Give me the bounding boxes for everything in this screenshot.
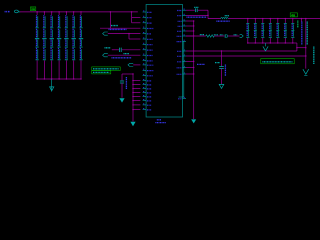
capacitor C11 label2 xyxy=(215,62,220,64)
pin 9 left xyxy=(143,54,147,56)
ic U2 body xyxy=(146,5,182,118)
wire cap to gnd 2 xyxy=(221,69,223,85)
pin 31 right xyxy=(183,67,187,69)
junction SCK cap xyxy=(221,50,222,51)
wire GND pin stub 8 xyxy=(133,109,140,111)
pin 25 right xyxy=(183,30,187,32)
wire cap row left xyxy=(112,49,119,51)
wire EN tie vertical xyxy=(128,34,130,39)
resistor R1 / LED D1 column xyxy=(35,11,39,80)
connector J1 label 0 xyxy=(297,21,299,29)
capacitor C12 xyxy=(118,48,120,52)
capacitor C11 label xyxy=(224,65,226,77)
net flag OUT xyxy=(240,34,244,37)
capacitor C11 xyxy=(219,66,224,68)
pin 22 right xyxy=(183,14,187,16)
pin 5 left xyxy=(143,33,147,35)
pin 19 left GND xyxy=(143,104,147,106)
connector J1 label c xyxy=(313,47,315,65)
ground GND5 xyxy=(219,84,224,88)
pin 10 left xyxy=(143,60,147,62)
pin 21 right xyxy=(183,9,187,11)
capacitor C10 xyxy=(224,34,226,38)
pin 29 right xyxy=(183,55,187,57)
capacitor C9 label xyxy=(194,6,198,8)
ferrite bead FB1 xyxy=(221,17,229,18)
resistor R7 / LED D7 column xyxy=(79,11,83,80)
pin 7 left xyxy=(143,43,147,45)
net flag RXD xyxy=(128,63,133,66)
ground GND3 xyxy=(130,122,135,126)
wire VDD to bead xyxy=(208,18,221,20)
pin 2 left xyxy=(143,16,147,18)
net class label 3A xyxy=(30,7,35,11)
wire GND pin stub 7 xyxy=(133,104,140,106)
pin 18 left GND xyxy=(143,100,147,102)
wire cap to gnd xyxy=(121,83,123,98)
wire GND pin stub 1 xyxy=(133,80,140,82)
wire EN row xyxy=(108,33,141,35)
wire R8 to C10 xyxy=(214,35,224,37)
capacitor C12 value xyxy=(105,47,111,49)
pin 16 left GND xyxy=(143,92,147,94)
wire EN tie row xyxy=(129,38,140,40)
resistor R2 / LED D2 column xyxy=(42,11,46,80)
pin 27 right xyxy=(183,40,187,42)
net label +3.3V xyxy=(5,11,8,13)
label ADC net xyxy=(109,28,127,30)
note box GPIO xyxy=(92,67,120,71)
wire J1 drop xyxy=(305,19,307,69)
wire GND pin stub 2 xyxy=(133,84,140,86)
net class label 4A xyxy=(290,13,297,17)
connector J1 label b xyxy=(306,22,308,46)
pin 28 right xyxy=(183,50,187,52)
wire rail to SCK row xyxy=(293,42,297,44)
wire RXD row xyxy=(133,64,140,66)
net flag EN xyxy=(103,32,108,35)
ferrite bead FB1 label xyxy=(225,15,229,17)
pin 6 left xyxy=(143,38,147,40)
pin 13 left xyxy=(143,75,147,77)
wire IO9 to R8 xyxy=(186,35,206,37)
label IO9 net xyxy=(197,63,205,65)
wire NC tie rail xyxy=(193,21,195,119)
resistor R13 pulldown xyxy=(269,18,272,44)
wire pulldown rail xyxy=(248,42,293,44)
wire pin VDA row xyxy=(186,14,208,16)
label ADC class xyxy=(111,25,118,27)
net flag IO0 xyxy=(103,54,108,57)
wire GND pin stub 6 xyxy=(133,100,140,102)
wire SCK long row xyxy=(186,50,297,52)
pin 1 left xyxy=(143,11,147,13)
pin 4 left xyxy=(143,27,147,29)
pin 8 left xyxy=(143,49,147,51)
wire SDO long row xyxy=(186,55,306,57)
wire VDD cap link xyxy=(122,73,133,75)
resistor R8 value xyxy=(214,34,218,36)
wire pin EXT row xyxy=(186,9,195,11)
wire VDD comb vertical xyxy=(131,12,133,23)
resistor R15 pulldown xyxy=(284,18,287,44)
pin 15 left GND xyxy=(143,88,147,90)
wire far right stub a xyxy=(301,19,303,22)
pin 33 right xyxy=(183,98,187,100)
wire cap row right xyxy=(122,49,141,51)
pin 23 right xyxy=(183,20,187,22)
pin 3 left xyxy=(143,22,147,24)
wire GND rail left xyxy=(132,74,134,121)
pin 20 left GND xyxy=(143,109,147,111)
note box right xyxy=(261,59,294,64)
resistor R8 xyxy=(206,35,214,38)
wire VDD pin2 stub xyxy=(132,16,141,18)
resistor R5 / LED D5 column xyxy=(64,11,68,80)
wire NC stub y61.5 xyxy=(186,61,194,63)
resistor R12 pulldown xyxy=(261,18,264,44)
resistor R8 label xyxy=(200,34,204,36)
pin 11 left xyxy=(143,64,147,66)
label IO0 net xyxy=(112,57,132,59)
wire NC stub y74.0 xyxy=(186,73,194,75)
wire NC stub y67.5 xyxy=(186,67,194,69)
resistor R3 / LED D3 column xyxy=(50,11,54,80)
pin 30 right xyxy=(183,61,187,63)
pin 26 right xyxy=(183,35,187,37)
label IO0 class xyxy=(124,53,130,55)
wire GND pin stub 5 xyxy=(133,96,140,98)
ic U2 refdes xyxy=(157,119,161,121)
pin 32 right xyxy=(183,73,187,75)
ground GND7 xyxy=(303,69,309,74)
pin 14 left GND xyxy=(143,84,147,86)
junction EN tie xyxy=(128,33,129,34)
ic section divider xyxy=(179,96,184,98)
wire 4A bus xyxy=(228,18,320,20)
label VDA net xyxy=(187,16,207,18)
wire VDD pin3 stub xyxy=(132,22,141,24)
resistor R6 / LED D6 column xyxy=(72,11,76,80)
wire stub 47 xyxy=(297,47,306,49)
wire cap to corner xyxy=(198,9,208,11)
power symbol P1 supply circle xyxy=(15,10,19,13)
wire cap drop xyxy=(221,51,223,66)
resistor R4 / LED D4 column xyxy=(57,11,61,80)
junction on bus at VDD comb xyxy=(131,11,132,12)
wire IO0 row xyxy=(108,54,141,56)
wire ADC row xyxy=(100,27,140,29)
wire NC stub y36.0 xyxy=(186,35,194,37)
wire analog teal xyxy=(183,41,185,97)
capacitor C10 value xyxy=(234,34,238,36)
wire LED return rail xyxy=(37,78,81,80)
junction VDD rail xyxy=(132,73,133,74)
junction on bus at ADC branch xyxy=(110,11,111,12)
pin 12 left xyxy=(143,69,147,71)
label VDD33 net xyxy=(216,20,229,22)
ground GND1 xyxy=(51,79,53,87)
resistor R10 pulldown xyxy=(246,18,249,44)
capacitor C9 xyxy=(194,8,196,12)
resistor R16 pulldown xyxy=(291,18,294,44)
wire C10 to flag xyxy=(228,35,240,37)
resistor R11 pulldown xyxy=(254,18,257,44)
wire NC stub y26.0 xyxy=(186,25,194,27)
wire NC stub y21.0 xyxy=(186,20,194,22)
junction VDD corner xyxy=(207,15,208,16)
ic U2 partname xyxy=(155,122,166,124)
pin 24 right xyxy=(183,25,187,27)
pin 13 left GND xyxy=(143,80,147,82)
capacitor C13 xyxy=(120,80,124,82)
connector J1 label a xyxy=(301,22,303,46)
capacitor C10 label xyxy=(220,34,223,36)
ground GND4 xyxy=(191,119,196,123)
wire 3.3V bus xyxy=(20,11,138,13)
wire GND pin stub 3 xyxy=(133,88,140,90)
ground GND6 xyxy=(265,43,267,46)
wire GND pin stub 4 xyxy=(133,92,140,94)
resistor R14 pulldown xyxy=(276,18,279,44)
junction SDO end xyxy=(305,55,306,56)
capacitor C13 label xyxy=(125,77,127,89)
ground GND2 xyxy=(119,98,124,102)
wire NC stub y31.0 xyxy=(186,30,194,32)
wire ADC branch vertical xyxy=(109,12,111,28)
pin 17 left GND xyxy=(143,96,147,98)
junction far right bus a xyxy=(301,18,302,19)
